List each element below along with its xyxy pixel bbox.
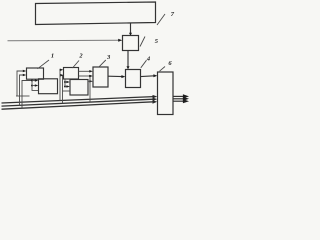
svg-text:1: 1 <box>51 53 54 60</box>
box 6 (tall right box) <box>158 72 174 115</box>
box6 output line 3 <box>173 100 185 102</box>
wire: box3 to box4 <box>108 75 122 77</box>
box6 output line 2 <box>173 98 185 100</box>
arrow into big box1 lower <box>32 85 36 87</box>
riser f from bus to box3 wire <box>89 76 91 102</box>
wire: small box2 to box3 middle <box>79 75 91 77</box>
junction dot <box>89 75 91 77</box>
leader for 1 <box>38 60 50 69</box>
junction dot <box>31 85 33 87</box>
svg-text:4: 4 <box>146 56 151 63</box>
box 5 <box>123 36 139 51</box>
corner wire into big box2 bottom-left <box>63 90 70 92</box>
wire: small box2 to box3 upper <box>79 70 91 72</box>
riser c to junction of big box 1 <box>22 81 32 109</box>
riser a into small box 1 <box>17 71 24 96</box>
small box 2 <box>64 68 79 80</box>
wire: box5 bottom to box4 top <box>127 51 129 67</box>
bus line 3 (bottom) <box>2 102 154 109</box>
arrow into big box2 upper <box>65 81 67 83</box>
junction dot <box>64 86 66 88</box>
wire: long horizontal input line to box5 <box>8 39 120 42</box>
riser b into small box 1 <box>20 75 24 105</box>
arrow into big box2 lower <box>65 86 67 88</box>
block 7 (wide top rectangle) <box>36 2 156 25</box>
box 4 <box>126 70 141 88</box>
arrow into big box1 upper <box>32 80 36 82</box>
junction dot <box>31 80 33 82</box>
wire: box4 to box6 <box>141 75 155 78</box>
small box2 drop line <box>64 79 66 87</box>
svg-text:2: 2 <box>78 52 83 59</box>
leader for 6 <box>160 67 166 72</box>
big box 2 <box>70 80 88 96</box>
junction dot <box>64 81 66 83</box>
big box 1 <box>39 79 58 94</box>
wire: big box2 to box3 lower <box>88 80 90 82</box>
leader tick for 7 <box>157 14 165 25</box>
leader for 3 <box>99 60 106 67</box>
bus line 2 (middle) <box>2 99 154 106</box>
wire shadow segment <box>16 95 30 97</box>
box6 output line 1 <box>173 95 185 97</box>
small box1 drop line <box>32 79 38 90</box>
leader for 4 <box>141 60 147 68</box>
leader tick for 5 <box>140 37 145 47</box>
bus line 1 (top) <box>2 97 154 103</box>
box 3 <box>93 67 108 87</box>
riser d into small box 2 <box>59 70 62 101</box>
riser e into small box 2 <box>61 75 63 103</box>
leader for 2 <box>73 61 80 69</box>
small box 1 <box>27 68 44 79</box>
wire: block7 bottom to box5 top <box>130 23 132 34</box>
